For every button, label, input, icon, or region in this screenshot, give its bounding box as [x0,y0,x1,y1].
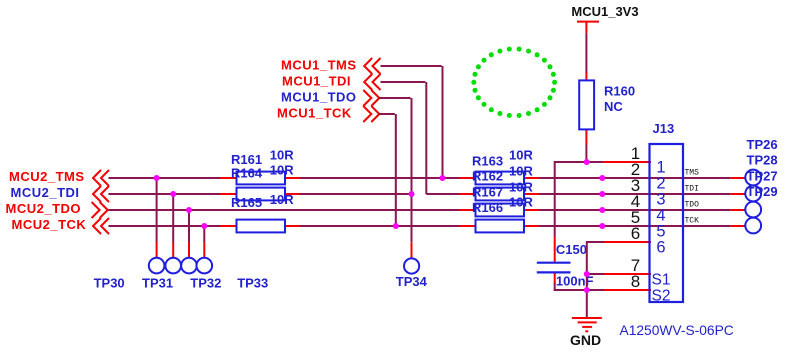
svg-text:GND: GND [570,332,601,348]
svg-text:S2: S2 [652,287,671,304]
svg-text:NC: NC [604,99,623,114]
wire MCU1_TCK [379,114,396,226]
wire to TP32 [188,210,190,258]
capacitor C150 [537,237,587,291]
pin number 7 [631,256,640,275]
wire TDO row [109,209,460,211]
net label MCU1_TMS [281,58,357,73]
test point TP28 pad [745,186,761,202]
test point TP31 [165,258,181,274]
svg-text:MCU1_TDI: MCU1_TDI [282,74,351,89]
label C150 [556,242,587,257]
value C150 100nF [556,274,594,289]
label TP31 [142,275,173,290]
resistor R160 [579,73,594,145]
wire MCU1_TDO [379,98,411,242]
wire to TP34 [411,242,413,258]
pin name S2 inside [652,287,671,304]
wire TP26/27 stub [730,177,745,179]
wire TMS row right [539,177,730,179]
net label MCU2_TDI [11,185,80,200]
svg-text:R166: R166 [472,200,503,215]
label R167 [472,184,503,199]
pin number 1 [631,144,640,163]
power label MCU1_3V3 [571,4,638,19]
label R163 [472,153,503,168]
wire TCK row mid [300,225,460,227]
resistor R162 [460,188,540,201]
svg-text:R164: R164 [231,166,263,181]
wire to TP33 [203,226,205,258]
svg-text:TDO: TDO [685,201,700,210]
svg-text:R165: R165 [231,195,262,210]
pin number 3 [631,176,640,195]
net label MCU1_TDI [282,74,351,89]
net label MCU2_TCK [12,217,87,232]
off-page connector MCU1_TCK [363,106,379,122]
svg-text:TP30: TP30 [94,275,125,290]
svg-text:TP31: TP31 [142,275,173,290]
wire pin7 S1 [587,273,651,275]
test point TP29 pad [745,218,761,234]
resistor R161 [220,172,300,185]
value R166 10R [509,195,533,210]
pin name 1 inside [656,158,665,176]
test point TP33 [197,258,213,274]
connector J13 body [650,144,684,302]
label R165 [231,195,262,210]
label R160 [604,84,635,99]
wire MCU1_TDI [381,82,460,194]
svg-text:MCU2_TMS: MCU2_TMS [9,169,85,184]
pin label TMS [685,169,700,178]
wire TDI row right [539,193,730,195]
pin number 8 [631,272,640,291]
pin name 4 inside [656,206,665,224]
label J13 [653,121,675,136]
pin name S1 inside [652,271,671,288]
test point TP32 [181,258,197,274]
svg-text:MCU2_TDO: MCU2_TDO [6,201,82,216]
label R161 [231,152,262,167]
off-page connector MCU1_TMS [364,58,380,74]
label TP28 [747,153,778,168]
off-page connector MCU2_TDI [93,186,109,202]
test point TP27 pad [745,202,761,218]
svg-text:R163: R163 [472,153,503,168]
resistor R165 [220,220,300,233]
svg-text:8: 8 [631,272,640,291]
svg-text:MCU2_TCK: MCU2_TCK [12,217,87,232]
wire TMS row left [109,177,221,179]
net label MCU2_TDO [6,201,82,216]
svg-text:10R: 10R [509,148,533,163]
wire pin1 row [555,161,651,163]
wire TDI row mid [300,193,412,195]
wire TP28 stub [730,193,745,195]
power symbol MCU1_3V3 [577,22,599,34]
pin label TCK [685,217,700,226]
svg-text:MCU1_TMS: MCU1_TMS [281,58,357,73]
pin name 5 inside [656,222,665,240]
value R164 10R [270,162,294,177]
svg-text:TP26: TP26 [747,137,778,152]
svg-text:10R: 10R [270,148,294,163]
label TP26 [747,137,778,152]
svg-text:TCK: TCK [685,217,700,226]
value R163 10R [509,148,533,163]
value R165 10R [270,192,294,207]
wire 3V3 to R160 [585,33,587,72]
svg-text:MCU1_TCK: MCU1_TCK [277,106,352,121]
svg-text:R162: R162 [472,169,503,184]
svg-text:MCU1_TDO: MCU1_TDO [281,90,357,105]
value R161 10R [270,148,294,163]
pin number 4 [631,192,640,211]
svg-text:6: 6 [656,238,665,256]
wire R160 to pin1 [585,145,587,164]
wire TCK tp stub [730,225,745,227]
ground [572,318,602,331]
part number A1250WV-S-06PC [620,323,734,338]
highlight green dotted ellipse [471,47,557,118]
wire TCK row left [109,225,221,227]
wire TCK row right [539,225,730,227]
pin number 6 [631,224,640,243]
net label MCU2_TMS [9,169,85,184]
svg-text:R167: R167 [472,184,503,199]
value R160 NC [604,99,623,114]
svg-text:MCU1_3V3: MCU1_3V3 [571,4,638,19]
wire TDO row right [539,209,730,211]
wire to TP30 [156,178,158,258]
resistor R166 [460,220,540,233]
svg-text:TP32: TP32 [190,275,221,290]
test point TP34 [404,258,419,273]
wire gnd vertical [586,241,588,318]
label TP30 [94,275,125,290]
svg-text:TMS: TMS [685,169,700,178]
wire to TP31 [172,194,174,258]
value R167 10R [509,179,533,194]
value R162 10R [509,163,533,178]
net label MCU1_TDO [281,90,357,105]
label R164 [231,166,263,181]
resistor R167 [460,204,540,217]
svg-text:10R: 10R [509,163,533,178]
pin number 2 [631,160,640,179]
svg-text:R160: R160 [604,84,635,99]
label GND [570,332,601,348]
svg-text:10R: 10R [270,192,294,207]
svg-text:MCU2_TDI: MCU2_TDI [11,185,80,200]
pin name 6 inside [656,238,665,256]
svg-text:C150: C150 [556,242,587,257]
resistor R163 [460,172,540,185]
resistor R164 [220,188,300,201]
label TP33 [237,275,268,290]
wire TMS row mid [300,177,460,179]
wire TDO tp stub [730,209,745,211]
off-page connector MCU1_TDO [363,90,379,106]
pin label TDI [685,185,699,194]
test point TP30 [149,258,165,274]
svg-text:10R: 10R [509,195,533,210]
svg-text:S1: S1 [652,271,671,288]
label TP29 [747,184,778,199]
off-page connector MCU2_TCK [93,218,109,234]
svg-text:TDI: TDI [685,185,699,194]
pin number 5 [631,208,640,227]
svg-text:TP33: TP33 [237,275,268,290]
svg-text:10R: 10R [509,179,533,194]
wire pin1 down to C150 [554,161,556,237]
svg-text:6: 6 [631,224,640,243]
off-page connector MCU2_TDO [92,202,108,218]
svg-text:TP27: TP27 [747,168,778,183]
wire pin8 S2 [587,289,651,291]
wire MCU1_TMS [381,66,443,178]
label R166 [472,200,503,215]
svg-text:A1250WV-S-06PC: A1250WV-S-06PC [620,323,734,338]
pin label TDO [685,201,700,210]
svg-text:TP34: TP34 [396,274,428,289]
label TP32 [190,275,221,290]
label TP27 [747,168,778,183]
label TP34 [396,274,428,289]
net label MCU1_TCK [277,106,352,121]
off-page connector MCU1_TDI [364,74,380,90]
label R162 [472,169,503,184]
test point TP26 pad [745,170,761,186]
off-page connector MCU2_TMS [93,170,109,186]
pin name 3 inside [656,190,665,208]
wire pin6 [587,241,651,243]
svg-text:J13: J13 [653,121,675,136]
junction dots [154,159,606,293]
wire TDI row left [109,193,221,195]
svg-text:TP29: TP29 [747,184,778,199]
svg-text:10R: 10R [270,162,294,177]
pin name 2 inside [656,174,665,192]
svg-text:TP28: TP28 [747,153,778,168]
